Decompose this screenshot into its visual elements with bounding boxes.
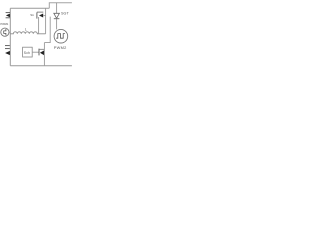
svg-text:PWM2: PWM2 <box>54 45 67 50</box>
wire left rail <box>9 8 11 65</box>
transistor M1 <box>6 13 10 18</box>
wire top rail <box>10 7 49 9</box>
inductor L <box>10 32 45 34</box>
wire bottom rail <box>10 65 72 67</box>
svg-text:PWM1: PWM1 <box>0 22 8 26</box>
wire B (S1 output down to lower switch) <box>44 17 50 43</box>
wire top bypass branch <box>49 3 72 9</box>
transistor M2 <box>5 46 10 56</box>
PWM source PWM1 (circle with pulse icon) <box>1 28 11 36</box>
svg-text:Sch: Sch <box>24 51 30 55</box>
svg-text:SGT: SGT <box>61 12 70 16</box>
PWM source PWM2 (circle with pulse icon) <box>54 29 68 43</box>
transistor T3 <box>39 49 44 56</box>
wire T3 vertical to bottom rail <box>43 43 45 66</box>
svg-text:S1: S1 <box>30 13 34 17</box>
transistor S1 <box>37 12 46 34</box>
wire box to T3 gate <box>32 51 39 53</box>
driver box Sch <box>23 47 33 57</box>
wire A (rail to inductor node) <box>45 8 47 34</box>
diode D1 <box>54 3 60 30</box>
svg-text:L: L <box>25 28 27 32</box>
